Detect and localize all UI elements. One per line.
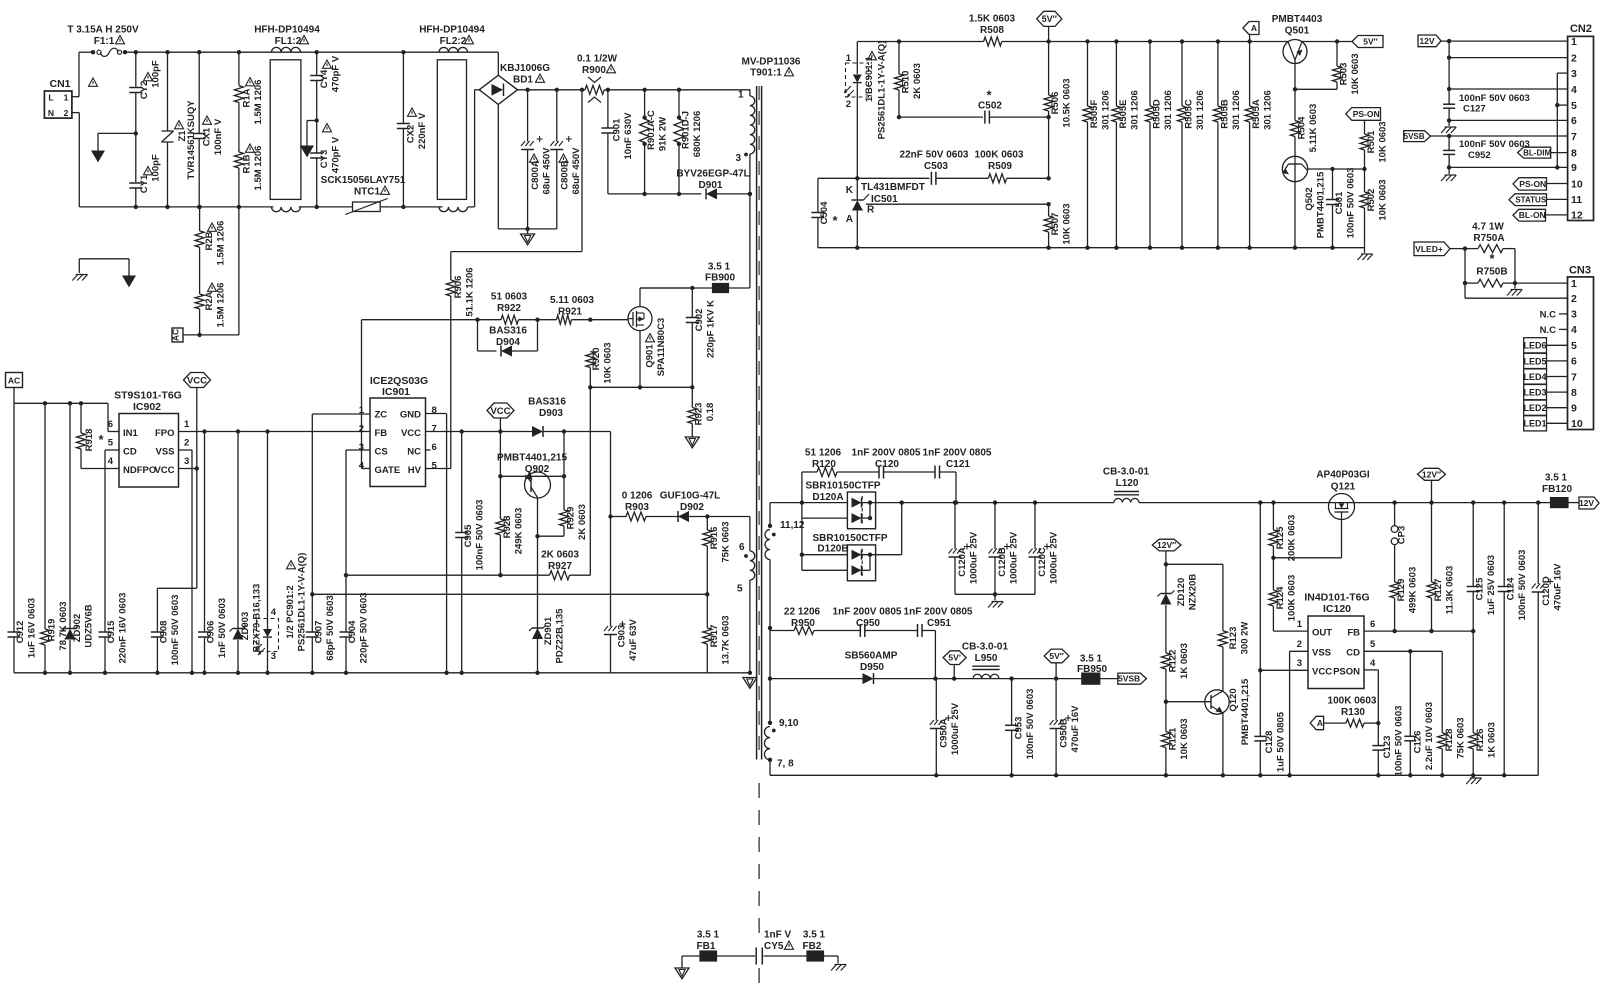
svg-text:C121: C121 bbox=[946, 459, 970, 470]
svg-text:1000uF 25V: 1000uF 25V bbox=[1049, 531, 1060, 584]
svg-text:CN1: CN1 bbox=[49, 78, 70, 90]
svg-text:GUF10G-47L: GUF10G-47L bbox=[660, 491, 721, 502]
svg-text:3.5 1: 3.5 1 bbox=[803, 930, 826, 941]
svg-text:CD: CD bbox=[1346, 648, 1360, 659]
svg-text:3: 3 bbox=[271, 651, 276, 662]
svg-text:FB120: FB120 bbox=[1542, 484, 1572, 495]
svg-text:5: 5 bbox=[108, 438, 114, 449]
svg-text:5V″: 5V″ bbox=[1363, 36, 1377, 46]
svg-text:AP40P03GI: AP40P03GI bbox=[1316, 470, 1370, 481]
svg-text:300 2W: 300 2W bbox=[1240, 622, 1251, 655]
svg-text:C123: C123 bbox=[1382, 736, 1393, 759]
svg-text:FB1: FB1 bbox=[697, 941, 716, 952]
svg-text:VCC: VCC bbox=[154, 465, 174, 476]
svg-text:N: N bbox=[48, 108, 54, 118]
svg-text:C120B: C120B bbox=[997, 547, 1008, 577]
svg-text:FB: FB bbox=[375, 428, 388, 439]
svg-text:75K 0603: 75K 0603 bbox=[721, 521, 732, 562]
svg-text:CB-3.0-01: CB-3.0-01 bbox=[962, 642, 1009, 653]
svg-text:12V″: 12V″ bbox=[1157, 540, 1176, 550]
svg-text:VCC: VCC bbox=[401, 428, 421, 439]
svg-text:9: 9 bbox=[1571, 162, 1577, 174]
svg-text:8: 8 bbox=[1571, 147, 1577, 159]
svg-text:100K 0603: 100K 0603 bbox=[975, 150, 1024, 161]
svg-text:R128: R128 bbox=[1444, 729, 1455, 752]
svg-text:L950: L950 bbox=[975, 653, 998, 664]
svg-text:C905: C905 bbox=[463, 524, 474, 547]
svg-text:C902: C902 bbox=[694, 309, 705, 332]
svg-text:10K 0603: 10K 0603 bbox=[1062, 203, 1073, 244]
svg-text:C951: C951 bbox=[927, 618, 951, 629]
svg-text:C127: C127 bbox=[1463, 104, 1486, 115]
svg-text:R1B: R1B bbox=[242, 154, 253, 173]
svg-text:3: 3 bbox=[184, 456, 189, 467]
svg-text:F1:1: F1:1 bbox=[94, 36, 115, 47]
svg-text:R505C: R505C bbox=[1184, 99, 1195, 129]
svg-text:A: A bbox=[1251, 23, 1257, 33]
svg-text:4: 4 bbox=[1370, 658, 1376, 669]
svg-text:UDZ5V6B: UDZ5V6B bbox=[84, 604, 95, 647]
svg-text:R2B: R2B bbox=[204, 231, 215, 250]
svg-text:AC: AC bbox=[8, 376, 20, 386]
svg-text:FL1:2: FL1:2 bbox=[275, 36, 302, 47]
svg-text:2.2uF 10V 0603: 2.2uF 10V 0603 bbox=[1424, 702, 1435, 770]
svg-text:301 1206: 301 1206 bbox=[1163, 90, 1174, 130]
svg-text:4: 4 bbox=[1571, 84, 1577, 96]
svg-text:C120C: C120C bbox=[1037, 547, 1048, 577]
svg-text:6: 6 bbox=[432, 442, 437, 453]
svg-text:680K 1206: 680K 1206 bbox=[692, 111, 703, 157]
svg-text:5V′: 5V′ bbox=[948, 653, 960, 663]
svg-text:1: 1 bbox=[1571, 278, 1577, 290]
svg-text:CX1: CX1 bbox=[202, 127, 213, 146]
svg-text:C504: C504 bbox=[819, 201, 830, 224]
svg-text:5: 5 bbox=[1571, 340, 1577, 352]
svg-text:CN2: CN2 bbox=[1570, 23, 1592, 35]
svg-text:R929: R929 bbox=[566, 507, 577, 530]
svg-text:R124: R124 bbox=[1275, 586, 1286, 609]
svg-text:IN4D101-T6G: IN4D101-T6G bbox=[1304, 592, 1369, 604]
svg-text:FB2: FB2 bbox=[803, 941, 822, 952]
svg-text:4: 4 bbox=[271, 607, 277, 618]
svg-text:R505B: R505B bbox=[1219, 99, 1230, 129]
svg-text:100pF: 100pF bbox=[151, 60, 162, 88]
svg-text:7: 7 bbox=[1571, 371, 1577, 383]
svg-text:1.5M 1206: 1.5M 1206 bbox=[216, 283, 227, 328]
svg-text:L: L bbox=[48, 93, 53, 103]
svg-text:D903: D903 bbox=[539, 408, 563, 419]
svg-text:8: 8 bbox=[1571, 387, 1577, 399]
svg-text:T901:1: T901:1 bbox=[750, 68, 782, 79]
svg-text:C800A: C800A bbox=[530, 160, 541, 190]
svg-text:0.1 1/2W: 0.1 1/2W bbox=[577, 54, 618, 65]
svg-text:R921: R921 bbox=[558, 307, 582, 318]
svg-text:GND: GND bbox=[400, 410, 421, 421]
svg-text:R906: R906 bbox=[453, 276, 464, 299]
svg-text:3: 3 bbox=[1571, 68, 1577, 80]
svg-text:Q121: Q121 bbox=[1331, 482, 1356, 493]
svg-text:68uF 450V: 68uF 450V bbox=[542, 147, 553, 195]
svg-text:R: R bbox=[867, 205, 875, 216]
svg-text:R506: R506 bbox=[1050, 92, 1061, 115]
svg-text:HFH-DP10494: HFH-DP10494 bbox=[254, 25, 320, 36]
svg-text:10: 10 bbox=[1571, 418, 1583, 430]
svg-text:R508: R508 bbox=[980, 25, 1004, 36]
svg-text:2K 0603: 2K 0603 bbox=[577, 504, 588, 540]
svg-text:3: 3 bbox=[1297, 658, 1302, 669]
svg-text:Q501: Q501 bbox=[1285, 26, 1310, 37]
svg-text:D120B: D120B bbox=[817, 544, 848, 555]
svg-text:220nF V: 220nF V bbox=[417, 112, 428, 149]
svg-text:5VSB: 5VSB bbox=[1404, 132, 1425, 141]
svg-text:BAS316: BAS316 bbox=[489, 326, 527, 337]
svg-text:10K 0603: 10K 0603 bbox=[1350, 53, 1361, 94]
svg-text:IC120: IC120 bbox=[1323, 603, 1351, 615]
svg-text:R2A: R2A bbox=[204, 291, 215, 310]
svg-text:12V″: 12V″ bbox=[1422, 469, 1441, 479]
svg-text:PS-ON: PS-ON bbox=[1353, 109, 1380, 119]
svg-text:KBJ1006G: KBJ1006G bbox=[500, 63, 550, 74]
svg-text:CD: CD bbox=[123, 447, 137, 458]
svg-text:1: 1 bbox=[184, 419, 190, 430]
svg-text:22 1206: 22 1206 bbox=[784, 607, 821, 618]
svg-text:ZD120: ZD120 bbox=[1176, 578, 1187, 607]
svg-text:R503: R503 bbox=[1339, 63, 1350, 86]
svg-text:R917: R917 bbox=[709, 625, 720, 648]
svg-text:NTC1: NTC1 bbox=[354, 187, 381, 198]
svg-text:1.5M 1206: 1.5M 1206 bbox=[216, 221, 227, 266]
svg-text:3.5 1: 3.5 1 bbox=[1545, 473, 1568, 484]
svg-text:C128: C128 bbox=[1264, 731, 1275, 754]
svg-text:HFH-DP10494: HFH-DP10494 bbox=[419, 25, 485, 36]
svg-text:AC: AC bbox=[171, 329, 181, 341]
svg-text:1uF 50V 0805: 1uF 50V 0805 bbox=[1276, 711, 1287, 772]
svg-text:GATE: GATE bbox=[375, 465, 401, 476]
svg-text:470pF V: 470pF V bbox=[331, 55, 342, 92]
svg-text:5: 5 bbox=[1571, 100, 1577, 112]
svg-text:R927: R927 bbox=[548, 561, 572, 572]
svg-text:301 1206: 301 1206 bbox=[1195, 90, 1206, 130]
svg-text:9,10: 9,10 bbox=[779, 718, 799, 729]
svg-text:T 3.15A H 250V: T 3.15A H 250V bbox=[67, 25, 139, 36]
svg-text:1nF 200V 0805: 1nF 200V 0805 bbox=[833, 607, 902, 618]
svg-text:CP3: CP3 bbox=[1397, 526, 1408, 544]
svg-text:R901D-J: R901D-J bbox=[681, 111, 692, 149]
svg-text:301 1206: 301 1206 bbox=[1263, 90, 1274, 130]
svg-text:470uF 16V: 470uF 16V bbox=[1553, 563, 1564, 611]
svg-text:6: 6 bbox=[108, 419, 113, 430]
svg-text:10K 0603: 10K 0603 bbox=[1179, 718, 1190, 759]
svg-text:100nF 50V 0603: 100nF 50V 0603 bbox=[475, 500, 486, 571]
svg-text:2: 2 bbox=[1571, 293, 1577, 305]
svg-text:K: K bbox=[846, 185, 854, 196]
svg-text:D120A: D120A bbox=[812, 492, 843, 503]
svg-text:51 1206: 51 1206 bbox=[805, 448, 842, 459]
svg-text:1K 0603: 1K 0603 bbox=[1487, 722, 1498, 758]
svg-text:A: A bbox=[846, 214, 853, 225]
svg-text:2: 2 bbox=[64, 108, 69, 118]
svg-text:A: A bbox=[1317, 718, 1323, 728]
svg-text:4.7 1W: 4.7 1W bbox=[1472, 222, 1504, 233]
svg-text:1000uF 25V: 1000uF 25V bbox=[969, 531, 980, 584]
svg-text:301 1206: 301 1206 bbox=[1231, 90, 1242, 130]
svg-text:10.5K 0603: 10.5K 0603 bbox=[1062, 78, 1073, 127]
svg-text:N.C: N.C bbox=[1540, 325, 1557, 336]
svg-text:5: 5 bbox=[737, 584, 743, 595]
svg-text:C120A: C120A bbox=[957, 547, 968, 577]
svg-text:100nF 50V 0603: 100nF 50V 0603 bbox=[1025, 689, 1036, 760]
svg-text:VCC: VCC bbox=[1312, 667, 1332, 678]
svg-text:IC501: IC501 bbox=[871, 194, 898, 205]
svg-text:10nF 630V: 10nF 630V bbox=[623, 112, 634, 160]
svg-text:R501: R501 bbox=[1366, 130, 1377, 153]
svg-text:CY2: CY2 bbox=[139, 81, 150, 99]
svg-text:BD1: BD1 bbox=[513, 75, 533, 86]
svg-text:10K 0603: 10K 0603 bbox=[603, 342, 614, 383]
svg-text:R122: R122 bbox=[1168, 650, 1179, 673]
svg-text:LED4: LED4 bbox=[1523, 372, 1546, 382]
svg-text:R903: R903 bbox=[625, 502, 649, 513]
svg-text:7, 8: 7, 8 bbox=[777, 759, 794, 770]
svg-text:R130: R130 bbox=[1341, 707, 1365, 718]
svg-text:PMBT4401,215: PMBT4401,215 bbox=[1316, 171, 1327, 238]
svg-text:SBR10150CTFP: SBR10150CTFP bbox=[812, 533, 887, 544]
svg-text:R505E: R505E bbox=[1118, 99, 1129, 128]
svg-text:13.7K 0603: 13.7K 0603 bbox=[721, 615, 732, 664]
svg-text:R509: R509 bbox=[988, 161, 1012, 172]
svg-text:R920: R920 bbox=[591, 348, 602, 371]
svg-text:BAS316: BAS316 bbox=[528, 397, 566, 408]
svg-text:NC: NC bbox=[407, 447, 421, 458]
svg-text:R507: R507 bbox=[1050, 213, 1061, 236]
svg-text:51.1K 1206: 51.1K 1206 bbox=[465, 267, 476, 316]
svg-text:78.7K 0603: 78.7K 0603 bbox=[58, 601, 69, 650]
svg-text:C126: C126 bbox=[1413, 731, 1424, 754]
svg-text:R923: R923 bbox=[694, 403, 705, 426]
svg-text:C901: C901 bbox=[612, 118, 623, 141]
svg-text:5VSB: 5VSB bbox=[1118, 674, 1140, 684]
svg-text:5V″: 5V″ bbox=[1042, 14, 1058, 24]
svg-text:10: 10 bbox=[1571, 178, 1583, 190]
svg-text:SBR10150CTFP: SBR10150CTFP bbox=[805, 481, 880, 492]
svg-text:VCC: VCC bbox=[490, 406, 510, 417]
svg-text:1nF V: 1nF V bbox=[764, 930, 792, 941]
svg-text:C953: C953 bbox=[1014, 717, 1025, 740]
svg-text:LED6: LED6 bbox=[1523, 341, 1546, 351]
svg-text:CY3: CY3 bbox=[319, 150, 330, 168]
svg-text:0.18: 0.18 bbox=[705, 403, 716, 422]
svg-text:VSS: VSS bbox=[1312, 648, 1331, 659]
svg-text:NDFPO: NDFPO bbox=[123, 465, 156, 476]
svg-text:D902: D902 bbox=[680, 502, 704, 513]
svg-text:47uF 63V: 47uF 63V bbox=[628, 618, 639, 660]
svg-text:6: 6 bbox=[1571, 356, 1577, 368]
svg-text:11.3K 0603: 11.3K 0603 bbox=[1445, 566, 1456, 615]
svg-text:OUT: OUT bbox=[1312, 628, 1332, 639]
svg-text:PS2561DL1-1Y-V-A(Q): PS2561DL1-1Y-V-A(Q) bbox=[877, 41, 888, 140]
svg-text:ZD901: ZD901 bbox=[543, 616, 554, 645]
svg-text:R918: R918 bbox=[84, 429, 95, 452]
svg-text:ZD902: ZD902 bbox=[72, 614, 83, 643]
svg-text:91K 2W: 91K 2W bbox=[658, 117, 669, 151]
svg-text:3.5 1: 3.5 1 bbox=[708, 262, 731, 273]
svg-text:2: 2 bbox=[1571, 52, 1577, 64]
svg-text:VSS: VSS bbox=[155, 447, 174, 458]
svg-text:R505D: R505D bbox=[1152, 99, 1163, 129]
svg-text:100nF 50V 0603: 100nF 50V 0603 bbox=[170, 595, 181, 666]
svg-text:R919: R919 bbox=[47, 619, 58, 642]
svg-text:1: 1 bbox=[738, 90, 744, 101]
svg-text:R900: R900 bbox=[582, 65, 606, 76]
svg-text:FB: FB bbox=[1347, 628, 1360, 639]
svg-text:NZX20B: NZX20B bbox=[1188, 574, 1199, 611]
svg-text:2K 0603: 2K 0603 bbox=[541, 550, 579, 561]
svg-text:22nF 50V 0603: 22nF 50V 0603 bbox=[900, 150, 969, 161]
svg-text:100pF: 100pF bbox=[151, 154, 162, 182]
svg-text:220nF 16V 0603: 220nF 16V 0603 bbox=[118, 593, 129, 664]
svg-text:R901A-C: R901A-C bbox=[646, 110, 657, 150]
svg-text:C912: C912 bbox=[15, 621, 26, 644]
svg-text:100nF V: 100nF V bbox=[213, 118, 224, 155]
svg-text:1nF 50V 0603: 1nF 50V 0603 bbox=[217, 598, 228, 658]
svg-text:BL-ON: BL-ON bbox=[1519, 210, 1546, 220]
svg-text:11: 11 bbox=[1571, 194, 1582, 206]
svg-text:CS: CS bbox=[375, 447, 388, 458]
svg-text:100K 0603: 100K 0603 bbox=[1287, 575, 1298, 621]
svg-text:CY5: CY5 bbox=[764, 941, 784, 952]
svg-text:1.5K 0603: 1.5K 0603 bbox=[969, 14, 1016, 25]
svg-text:249K 0603: 249K 0603 bbox=[514, 508, 525, 554]
svg-text:220pF 1KV K: 220pF 1KV K bbox=[706, 300, 717, 358]
svg-text:Q902: Q902 bbox=[525, 464, 550, 475]
svg-text:100nF 50V 0603: 100nF 50V 0603 bbox=[1394, 706, 1405, 777]
svg-text:1.5M 1206: 1.5M 1206 bbox=[253, 146, 264, 191]
svg-text:C908: C908 bbox=[159, 621, 170, 644]
svg-text:10K 0603: 10K 0603 bbox=[1378, 121, 1389, 162]
svg-text:3: 3 bbox=[1571, 309, 1577, 321]
svg-text:C502: C502 bbox=[978, 101, 1002, 112]
svg-text:L120: L120 bbox=[1116, 478, 1139, 489]
svg-text:R750B: R750B bbox=[1476, 267, 1507, 278]
svg-text:8: 8 bbox=[432, 405, 437, 416]
svg-text:C120D: C120D bbox=[1541, 576, 1552, 606]
svg-text:FB900: FB900 bbox=[705, 273, 735, 284]
svg-text:CY4: CY4 bbox=[319, 69, 330, 88]
svg-text:ST9S101-T6G: ST9S101-T6G bbox=[114, 390, 182, 402]
svg-text:12V: 12V bbox=[1419, 36, 1434, 46]
svg-text:9: 9 bbox=[1571, 403, 1577, 415]
svg-text:VCC: VCC bbox=[187, 375, 207, 386]
svg-text:STATUS: STATUS bbox=[1515, 196, 1546, 205]
svg-text:1: 1 bbox=[1571, 36, 1577, 48]
svg-text:C915: C915 bbox=[106, 620, 117, 643]
svg-text:MV-DP11036: MV-DP11036 bbox=[742, 57, 801, 68]
svg-text:68pF 50V 0603: 68pF 50V 0603 bbox=[325, 595, 336, 661]
svg-text:12: 12 bbox=[1571, 210, 1583, 222]
svg-text:6: 6 bbox=[1370, 619, 1375, 630]
svg-text:1: 1 bbox=[846, 53, 852, 64]
svg-text:FL2:2: FL2:2 bbox=[440, 36, 467, 47]
svg-text:Q502: Q502 bbox=[1304, 187, 1315, 210]
svg-text:100nF 50V 0603: 100nF 50V 0603 bbox=[1346, 168, 1357, 239]
svg-text:6: 6 bbox=[1571, 115, 1577, 127]
svg-text:5.11 0603: 5.11 0603 bbox=[550, 295, 594, 306]
svg-text:1/BC901:1: 1/BC901:1 bbox=[864, 55, 875, 102]
svg-text:R121: R121 bbox=[1168, 727, 1179, 750]
svg-text:2: 2 bbox=[1297, 639, 1302, 650]
svg-text:4: 4 bbox=[1571, 324, 1577, 336]
svg-text:C124: C124 bbox=[1506, 577, 1517, 600]
svg-text:C904: C904 bbox=[347, 620, 358, 643]
svg-text:12V: 12V bbox=[1579, 498, 1594, 508]
svg-text:5V″: 5V″ bbox=[1049, 651, 1063, 661]
svg-text:6: 6 bbox=[739, 542, 745, 553]
svg-text:3.5 1: 3.5 1 bbox=[697, 930, 720, 941]
svg-text:PSON: PSON bbox=[1333, 667, 1360, 678]
svg-text:11,12: 11,12 bbox=[780, 520, 805, 531]
svg-text:Q901: Q901 bbox=[645, 344, 656, 368]
svg-text:FPO: FPO bbox=[155, 428, 175, 439]
svg-text:C903: C903 bbox=[617, 625, 628, 648]
svg-text:0 1206: 0 1206 bbox=[622, 491, 653, 502]
svg-text:TL431BMFDT: TL431BMFDT bbox=[861, 182, 925, 193]
svg-text:1nF 200V 0805: 1nF 200V 0805 bbox=[904, 607, 973, 618]
svg-text:C950B: C950B bbox=[1059, 718, 1070, 748]
svg-text:100nF 50V 0603: 100nF 50V 0603 bbox=[1459, 139, 1530, 150]
svg-text:SCK15056LAY751: SCK15056LAY751 bbox=[321, 175, 406, 186]
svg-text:IC901: IC901 bbox=[382, 386, 410, 398]
svg-text:R510: R510 bbox=[901, 71, 912, 94]
svg-text:CB-3.0-01: CB-3.0-01 bbox=[1103, 467, 1150, 478]
svg-text:200K 0603: 200K 0603 bbox=[1287, 515, 1298, 561]
svg-text:5: 5 bbox=[1370, 639, 1376, 650]
svg-text:4: 4 bbox=[108, 456, 114, 467]
svg-text:SPA11N80C3: SPA11N80C3 bbox=[656, 318, 667, 376]
svg-text:499K 0603: 499K 0603 bbox=[1408, 567, 1419, 613]
svg-text:1nF 200V 0805: 1nF 200V 0805 bbox=[852, 448, 921, 459]
svg-text:1uF 16V 0603: 1uF 16V 0603 bbox=[27, 598, 38, 658]
svg-text:1uF 25V 0603: 1uF 25V 0603 bbox=[1486, 555, 1497, 615]
svg-text:C907: C907 bbox=[314, 621, 325, 644]
svg-text:PS-ON: PS-ON bbox=[1519, 179, 1546, 189]
svg-text:R502: R502 bbox=[1366, 189, 1377, 212]
svg-text:SB560AMP: SB560AMP bbox=[845, 651, 898, 662]
svg-text:2K 0603: 2K 0603 bbox=[912, 63, 923, 99]
svg-text:PMBT4403: PMBT4403 bbox=[1272, 14, 1323, 25]
svg-text:2: 2 bbox=[846, 99, 851, 110]
svg-text:D904: D904 bbox=[496, 337, 520, 348]
svg-text:R928: R928 bbox=[502, 516, 513, 539]
svg-text:10K 0603: 10K 0603 bbox=[1378, 179, 1389, 220]
svg-text:1nF 200V 0805: 1nF 200V 0805 bbox=[923, 448, 992, 459]
svg-text:R505F: R505F bbox=[1089, 100, 1100, 129]
svg-text:BYV26EGP-47L: BYV26EGP-47L bbox=[676, 169, 749, 180]
svg-text:TVR14561KSUQY: TVR14561KSUQY bbox=[186, 100, 197, 180]
svg-text:HV: HV bbox=[408, 465, 422, 476]
svg-text:VLED+: VLED+ bbox=[1415, 244, 1443, 254]
svg-text:LED5: LED5 bbox=[1523, 356, 1546, 366]
svg-text:IN1: IN1 bbox=[123, 428, 139, 439]
svg-text:R127: R127 bbox=[1433, 579, 1444, 602]
svg-text:C800B: C800B bbox=[560, 160, 571, 190]
svg-text:IC902: IC902 bbox=[133, 401, 161, 413]
svg-text:3.5 1: 3.5 1 bbox=[1080, 654, 1103, 665]
svg-text:C503: C503 bbox=[924, 161, 948, 172]
svg-text:PMBT4401,215: PMBT4401,215 bbox=[1240, 678, 1251, 745]
svg-text:CX2: CX2 bbox=[406, 125, 417, 143]
svg-text:1: 1 bbox=[64, 93, 69, 103]
svg-text:100K 0603: 100K 0603 bbox=[1328, 696, 1377, 707]
